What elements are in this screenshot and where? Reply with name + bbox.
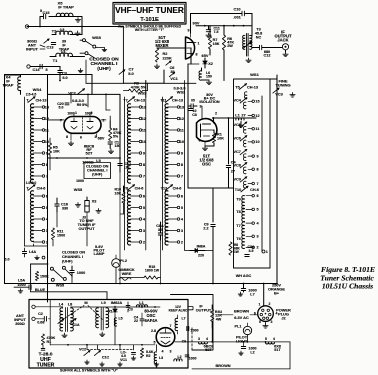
wire mixer top [191, 14, 253, 34]
svg-text:C1C: C1C [102, 355, 110, 359]
svg-text:300Ω: 300Ω [15, 321, 25, 326]
inductor L5A [17, 278, 25, 286]
svg-text:2: 2 [269, 302, 271, 306]
svg-text:3: 3 [143, 229, 145, 233]
wire [265, 321, 267, 323]
wire [212, 328, 265, 342]
label to UHF tuner [78, 218, 97, 231]
svg-text:(UHF): (UHF) [92, 173, 103, 177]
svg-text:C15: C15 [43, 11, 50, 15]
svg-text:VC8: VC8 [234, 163, 241, 167]
wire [123, 70, 196, 83]
svg-text:VC9: VC9 [234, 178, 241, 182]
svg-text:L7: L7 [250, 292, 254, 296]
label C1C [102, 355, 110, 359]
svg-text:J2: J2 [281, 316, 285, 321]
coil ladder WS4 upper [30, 104, 49, 183]
svg-text:6AF4A: 6AF4A [144, 318, 157, 323]
svg-text:3.9: 3.9 [249, 249, 254, 253]
svg-text:10: 10 [180, 140, 184, 144]
svg-text:9: 9 [256, 154, 258, 158]
trimmer VC1 [169, 72, 174, 76]
resistor R1 [205, 130, 224, 146]
trimmer CH-6 WS4 [26, 181, 46, 191]
capacitor C8 [189, 109, 197, 117]
UHF tuner box [29, 300, 188, 369]
label brown bottom [215, 363, 230, 368]
svg-text:WS5: WS5 [56, 284, 64, 288]
resistor R2 [155, 48, 172, 62]
caption figure [320, 265, 375, 291]
pin 9 [90, 111, 93, 117]
ground T2 [75, 31, 80, 36]
svg-text:1000: 1000 [189, 357, 197, 361]
svg-text:150: 150 [206, 75, 212, 79]
svg-text:7.5: 7.5 [214, 30, 219, 34]
svg-text:6.3V AC: 6.3V AC [234, 315, 249, 320]
resistor R4U [211, 305, 223, 328]
node [204, 25, 245, 27]
wire [33, 282, 35, 285]
svg-text:2: 2 [181, 240, 183, 244]
lamp PL2 [112, 255, 127, 267]
capacitor C6 label [170, 66, 175, 74]
svg-text:6: 6 [199, 139, 201, 143]
pin 2 [215, 112, 217, 116]
ground R2 [154, 64, 159, 69]
wire [87, 345, 134, 350]
svg-text:TUNING: TUNING [275, 82, 290, 87]
ground uhf 2 [100, 362, 105, 366]
svg-text:L9: L9 [101, 301, 105, 305]
svg-text:WS5: WS5 [92, 35, 101, 40]
inductor L6 [199, 68, 212, 80]
svg-text:11: 11 [180, 128, 184, 132]
svg-text:3: 3 [198, 337, 200, 341]
inductor L1 27 [235, 113, 245, 124]
label suffix U [60, 369, 118, 373]
wire rotor rail WS1 [261, 96, 263, 252]
svg-text:C14: C14 [33, 68, 41, 72]
wire frame around note [78, 27, 123, 84]
svg-text:10: 10 [255, 140, 259, 144]
svg-text:8: 8 [181, 163, 183, 167]
switch wafer WS1 label [250, 72, 259, 77]
wire right rail [257, 96, 259, 190]
node [212, 117, 229, 119]
svg-text:X2: X2 [208, 62, 213, 66]
capacitor C15 [40, 9, 50, 19]
pin 9 [188, 29, 190, 33]
svg-text:T5: T5 [235, 86, 239, 90]
svg-text:4W: 4W [216, 317, 222, 321]
svg-text:L3: L3 [159, 356, 163, 360]
diode X6 IM8A [190, 245, 206, 258]
svg-text:WIRE: WIRE [122, 272, 132, 276]
inductor L4A [4, 248, 45, 262]
svg-text:T10: T10 [235, 188, 242, 192]
coil ladder WS2 upper [165, 104, 184, 183]
pin 6 [199, 139, 201, 143]
svg-text:C10: C10 [233, 6, 240, 11]
label WS5 mid [74, 187, 83, 192]
svg-text:NC: NC [256, 36, 262, 40]
svg-text:1W: 1W [234, 250, 239, 254]
wire [86, 216, 88, 246]
label T3 [255, 28, 262, 40]
capacitor L2 heater [241, 342, 256, 355]
note closed on channel [84, 163, 111, 179]
svg-text:LIGHT: LIGHT [236, 339, 248, 343]
svg-text:27: 27 [241, 113, 245, 118]
svg-text:2: 2 [103, 118, 105, 122]
trap X5 loop wire [40, 17, 82, 27]
svg-text:3: 3 [200, 105, 202, 109]
node [39, 26, 83, 28]
wire [91, 75, 93, 95]
svg-text:5: 5 [154, 340, 156, 344]
svg-text:.001: .001 [233, 15, 241, 20]
label 1000 top [76, 179, 84, 183]
svg-text:LAMP: LAMP [94, 252, 105, 256]
wire [42, 74, 92, 76]
wire [30, 67, 60, 71]
svg-text:T6: T6 [236, 237, 240, 241]
svg-text:8: 8 [196, 53, 198, 57]
svg-text:OUTPUT: OUTPUT [196, 308, 212, 312]
tube V3 6AF4A [156, 328, 175, 347]
svg-text:1000: 1000 [76, 179, 84, 183]
svg-text:R1: R1 [47, 340, 52, 344]
svg-text:2: 2 [256, 246, 258, 250]
wafer WS4 box [24, 97, 26, 246]
wire 1000 L5 bus [48, 157, 121, 159]
svg-text:12: 12 [142, 117, 146, 121]
resistor R7 [208, 26, 219, 49]
wire top bus [48, 93, 121, 95]
switch WS5 upper [80, 35, 107, 58]
label osc 6AF4A [144, 309, 158, 323]
svg-text:C3: C3 [128, 307, 133, 311]
node [59, 26, 83, 82]
transformer T1 [50, 50, 78, 63]
wafer WS1 box [234, 79, 271, 268]
wafer WS2 left edge [162, 97, 164, 250]
svg-text:10K: 10K [53, 150, 60, 154]
pin 1 [198, 42, 200, 46]
switch wafer WS3 label [138, 91, 147, 96]
svg-text:C12: C12 [264, 54, 271, 58]
power plug J2 [258, 306, 274, 322]
svg-text:05: 05 [191, 99, 195, 103]
label 65V [202, 53, 209, 58]
terminal antenna input top [25, 25, 28, 28]
ground J1 [283, 52, 288, 57]
trimmer T12 CH-6 [161, 185, 182, 191]
tuning gang dashed link [62, 300, 133, 350]
capacitor VC1 [132, 353, 136, 355]
capacitor C12 [260, 45, 271, 57]
coil ladder WS3 upper [127, 104, 146, 183]
svg-text:VC1: VC1 [170, 76, 178, 81]
wire [270, 78, 277, 80]
svg-text:CH-6: CH-6 [37, 187, 46, 191]
capacitor 1000 shield [187, 326, 199, 332]
svg-text:BROWN: BROWN [215, 363, 230, 368]
ground L7 [238, 292, 243, 296]
transformer L9 [96, 301, 109, 336]
capacitor 1000 l2b [185, 355, 196, 361]
svg-text:5: 5 [40, 9, 42, 13]
capacitor L3 1000 [70, 266, 85, 277]
wire far right [276, 75, 278, 284]
svg-text:B+: B+ [274, 291, 280, 296]
svg-text:0.68: 0.68 [37, 321, 44, 325]
wire C10 branch [191, 14, 253, 26]
svg-text:13: 13 [45, 105, 49, 109]
trimmer T10 CH-6 [235, 186, 259, 192]
resistor R11 [51, 228, 65, 240]
capacitor C8A [156, 222, 164, 240]
svg-text:11: 11 [45, 128, 49, 132]
node [114, 306, 156, 308]
svg-text:220: 220 [198, 253, 204, 257]
svg-text:1.0-2.0: 1.0-2.0 [26, 181, 37, 185]
svg-text:VC2: VC2 [79, 347, 86, 351]
wire uhf mid bus [50, 344, 155, 346]
ground uhf 3 [118, 362, 123, 366]
wire blue [31, 292, 107, 300]
svg-text:R9 5%: R9 5% [77, 103, 88, 107]
wire [157, 48, 191, 59]
svg-text:9: 9 [181, 151, 183, 155]
svg-text:220K: 220K [163, 56, 172, 61]
svg-text:3: 3 [271, 320, 273, 324]
pin 2 [101, 118, 106, 122]
inductor L3 uhf [154, 352, 163, 364]
svg-text:CH-13: CH-13 [247, 86, 258, 90]
wire [188, 64, 234, 188]
label keep leads [169, 305, 188, 312]
svg-text:39: 39 [170, 70, 174, 74]
label fine tuning [275, 78, 290, 87]
inductor L7 uhf [175, 315, 186, 334]
wire [228, 118, 230, 164]
svg-text:0.8: 0.8 [60, 28, 65, 32]
svg-text:VHF–UHF TUNER: VHF–UHF TUNER [115, 6, 184, 15]
label WS5 low [56, 284, 64, 288]
svg-text:10: 10 [45, 140, 49, 144]
capacitor C14 [33, 64, 48, 72]
wire [106, 94, 110, 121]
wire [156, 345, 158, 368]
label 6BC8 [84, 144, 95, 156]
svg-text:11: 11 [142, 128, 146, 132]
capacitor C4 uhf [134, 313, 144, 326]
svg-text:5.0: 5.0 [128, 71, 134, 76]
pin 6 [80, 136, 82, 140]
wire to plug [263, 284, 265, 306]
svg-text:1: 1 [75, 111, 77, 115]
label pilot lamp [93, 245, 105, 256]
label VC3 [275, 91, 283, 96]
diode X3 [82, 197, 96, 220]
capacitor L7 bypass [241, 284, 256, 297]
wire [47, 75, 49, 303]
pin 8 [66, 134, 71, 140]
svg-text:WS1: WS1 [250, 72, 259, 77]
svg-text:15K: 15K [213, 42, 220, 46]
svg-text:10L51U Chassis: 10L51U Chassis [322, 282, 373, 291]
trimmer T8 CH-6 [124, 185, 144, 191]
ground uhf 1 [85, 360, 90, 364]
svg-text:470K 5%: 470K 5% [131, 85, 147, 89]
wire [78, 56, 85, 58]
svg-text:9: 9 [91, 111, 93, 115]
switch frame lower [31, 264, 48, 292]
title text [115, 6, 184, 23]
wire [120, 203, 124, 214]
transformer L4 L8 [50, 303, 76, 332]
resistor R2 uhf [140, 348, 154, 358]
svg-text:9: 9 [143, 151, 145, 155]
svg-text:L5A: L5A [18, 278, 25, 282]
trimmer T11 CH-13 [160, 97, 183, 103]
svg-text:6: 6 [80, 136, 82, 140]
svg-text:T7: T7 [123, 99, 127, 103]
wire [87, 94, 89, 107]
trimmer VC2 [68, 89, 84, 96]
svg-text:T2: T2 [52, 28, 57, 33]
svg-text:T8: T8 [236, 210, 240, 214]
label C6 uhf [182, 340, 187, 344]
label IF output jack [275, 30, 292, 43]
svg-text:7: 7 [181, 174, 183, 178]
svg-text:CH-6: CH-6 [135, 187, 144, 191]
title note [118, 25, 182, 32]
trimmer T7 CH-13 [123, 97, 145, 103]
pin 1 [74, 111, 77, 117]
svg-text:(UHF): (UHF) [97, 66, 111, 72]
capacitor C19 [188, 99, 197, 109]
svg-text:4: 4 [162, 349, 164, 353]
svg-text:MIXER: MIXER [155, 43, 168, 48]
wire [21, 93, 48, 95]
wire [119, 160, 121, 172]
svg-text:WITH LETTER “T”: WITH LETTER “T” [135, 28, 165, 32]
resistor R6 [222, 26, 234, 50]
ground uhf 5 [154, 362, 159, 366]
label WS2 top [173, 86, 185, 95]
inductor X5 IF TRAP [56, 1, 74, 17]
jack J1 IF output [282, 44, 288, 52]
heater V2 6X8 [265, 337, 281, 352]
capacitor C17 [118, 160, 131, 172]
ground osc [202, 146, 207, 151]
resistor 150K [35, 272, 49, 281]
switch WS5 lower [50, 266, 72, 281]
IF output shield box [171, 295, 214, 351]
wire [106, 300, 108, 308]
resistor R15 [144, 265, 160, 279]
wire [72, 267, 116, 283]
svg-text:4: 4 [273, 337, 275, 341]
wire 6.3v [220, 314, 258, 316]
wire [188, 52, 199, 64]
svg-text:L2: L2 [250, 350, 254, 354]
ground VC3 [290, 93, 295, 98]
title box [113, 3, 186, 25]
svg-text:2W: 2W [227, 44, 233, 48]
svg-text:5: 5 [45, 68, 47, 72]
label 68V [98, 137, 105, 141]
capacitor C5A [245, 245, 255, 257]
trimmer T4 CH-13 [26, 93, 47, 103]
lamp PL1 [235, 323, 252, 335]
label 250V orange [268, 283, 285, 296]
trimmer C7 [119, 70, 125, 75]
svg-text:JACK: JACK [277, 38, 288, 43]
wire [35, 307, 50, 319]
label 300ohm ant input [26, 39, 45, 52]
svg-text:15: 15 [255, 100, 259, 104]
wire [247, 335, 249, 342]
wire [213, 117, 256, 123]
capacitor C20 [57, 102, 69, 110]
ground C1 [108, 149, 113, 154]
svg-text:IF TRAP: IF TRAP [58, 5, 74, 10]
pin 7 [59, 118, 64, 122]
trimmer C1A left [58, 318, 64, 323]
label 1000 L5 [82, 159, 100, 164]
wire [5, 74, 21, 76]
svg-text:1: 1 [266, 250, 268, 254]
svg-text:1: 1 [259, 303, 261, 307]
svg-text:150: 150 [115, 144, 121, 148]
svg-text:C13: C13 [47, 46, 54, 50]
ground L1 [238, 123, 243, 128]
wire [119, 172, 121, 284]
diode X2 [203, 58, 213, 68]
svg-text:KEEP ALNC: KEEP ALNC [169, 308, 188, 312]
svg-text:52T: 52T [205, 348, 212, 352]
svg-text:PL1: PL1 [235, 324, 242, 328]
svg-text:TUNER: TUNER [37, 362, 55, 368]
ground L6 [206, 80, 211, 85]
svg-text:13: 13 [142, 105, 146, 109]
capacitor C10 [233, 6, 244, 19]
jack IF output uhf [189, 305, 212, 313]
tube U1 mixer 1/2 6X8 [186, 33, 197, 59]
wire gimmick [119, 278, 131, 281]
capacitor C16 [55, 198, 68, 212]
ground X5 [75, 18, 80, 23]
terminal ant 2 [32, 317, 35, 320]
svg-text:3: 3 [95, 135, 97, 139]
wire [49, 300, 51, 346]
wire [205, 250, 213, 252]
svg-text:1000: 1000 [190, 329, 198, 333]
svg-text:12: 12 [180, 117, 184, 121]
diode X1 IM62A [108, 300, 122, 315]
svg-text:2.8: 2.8 [151, 329, 156, 333]
svg-text:65V: 65V [202, 53, 209, 58]
svg-text:13: 13 [180, 105, 184, 109]
wire bottom edge [192, 342, 290, 369]
trimmer C1A right [70, 318, 80, 326]
svg-text:52T: 52T [86, 151, 93, 156]
svg-text:10K: 10K [217, 137, 224, 141]
